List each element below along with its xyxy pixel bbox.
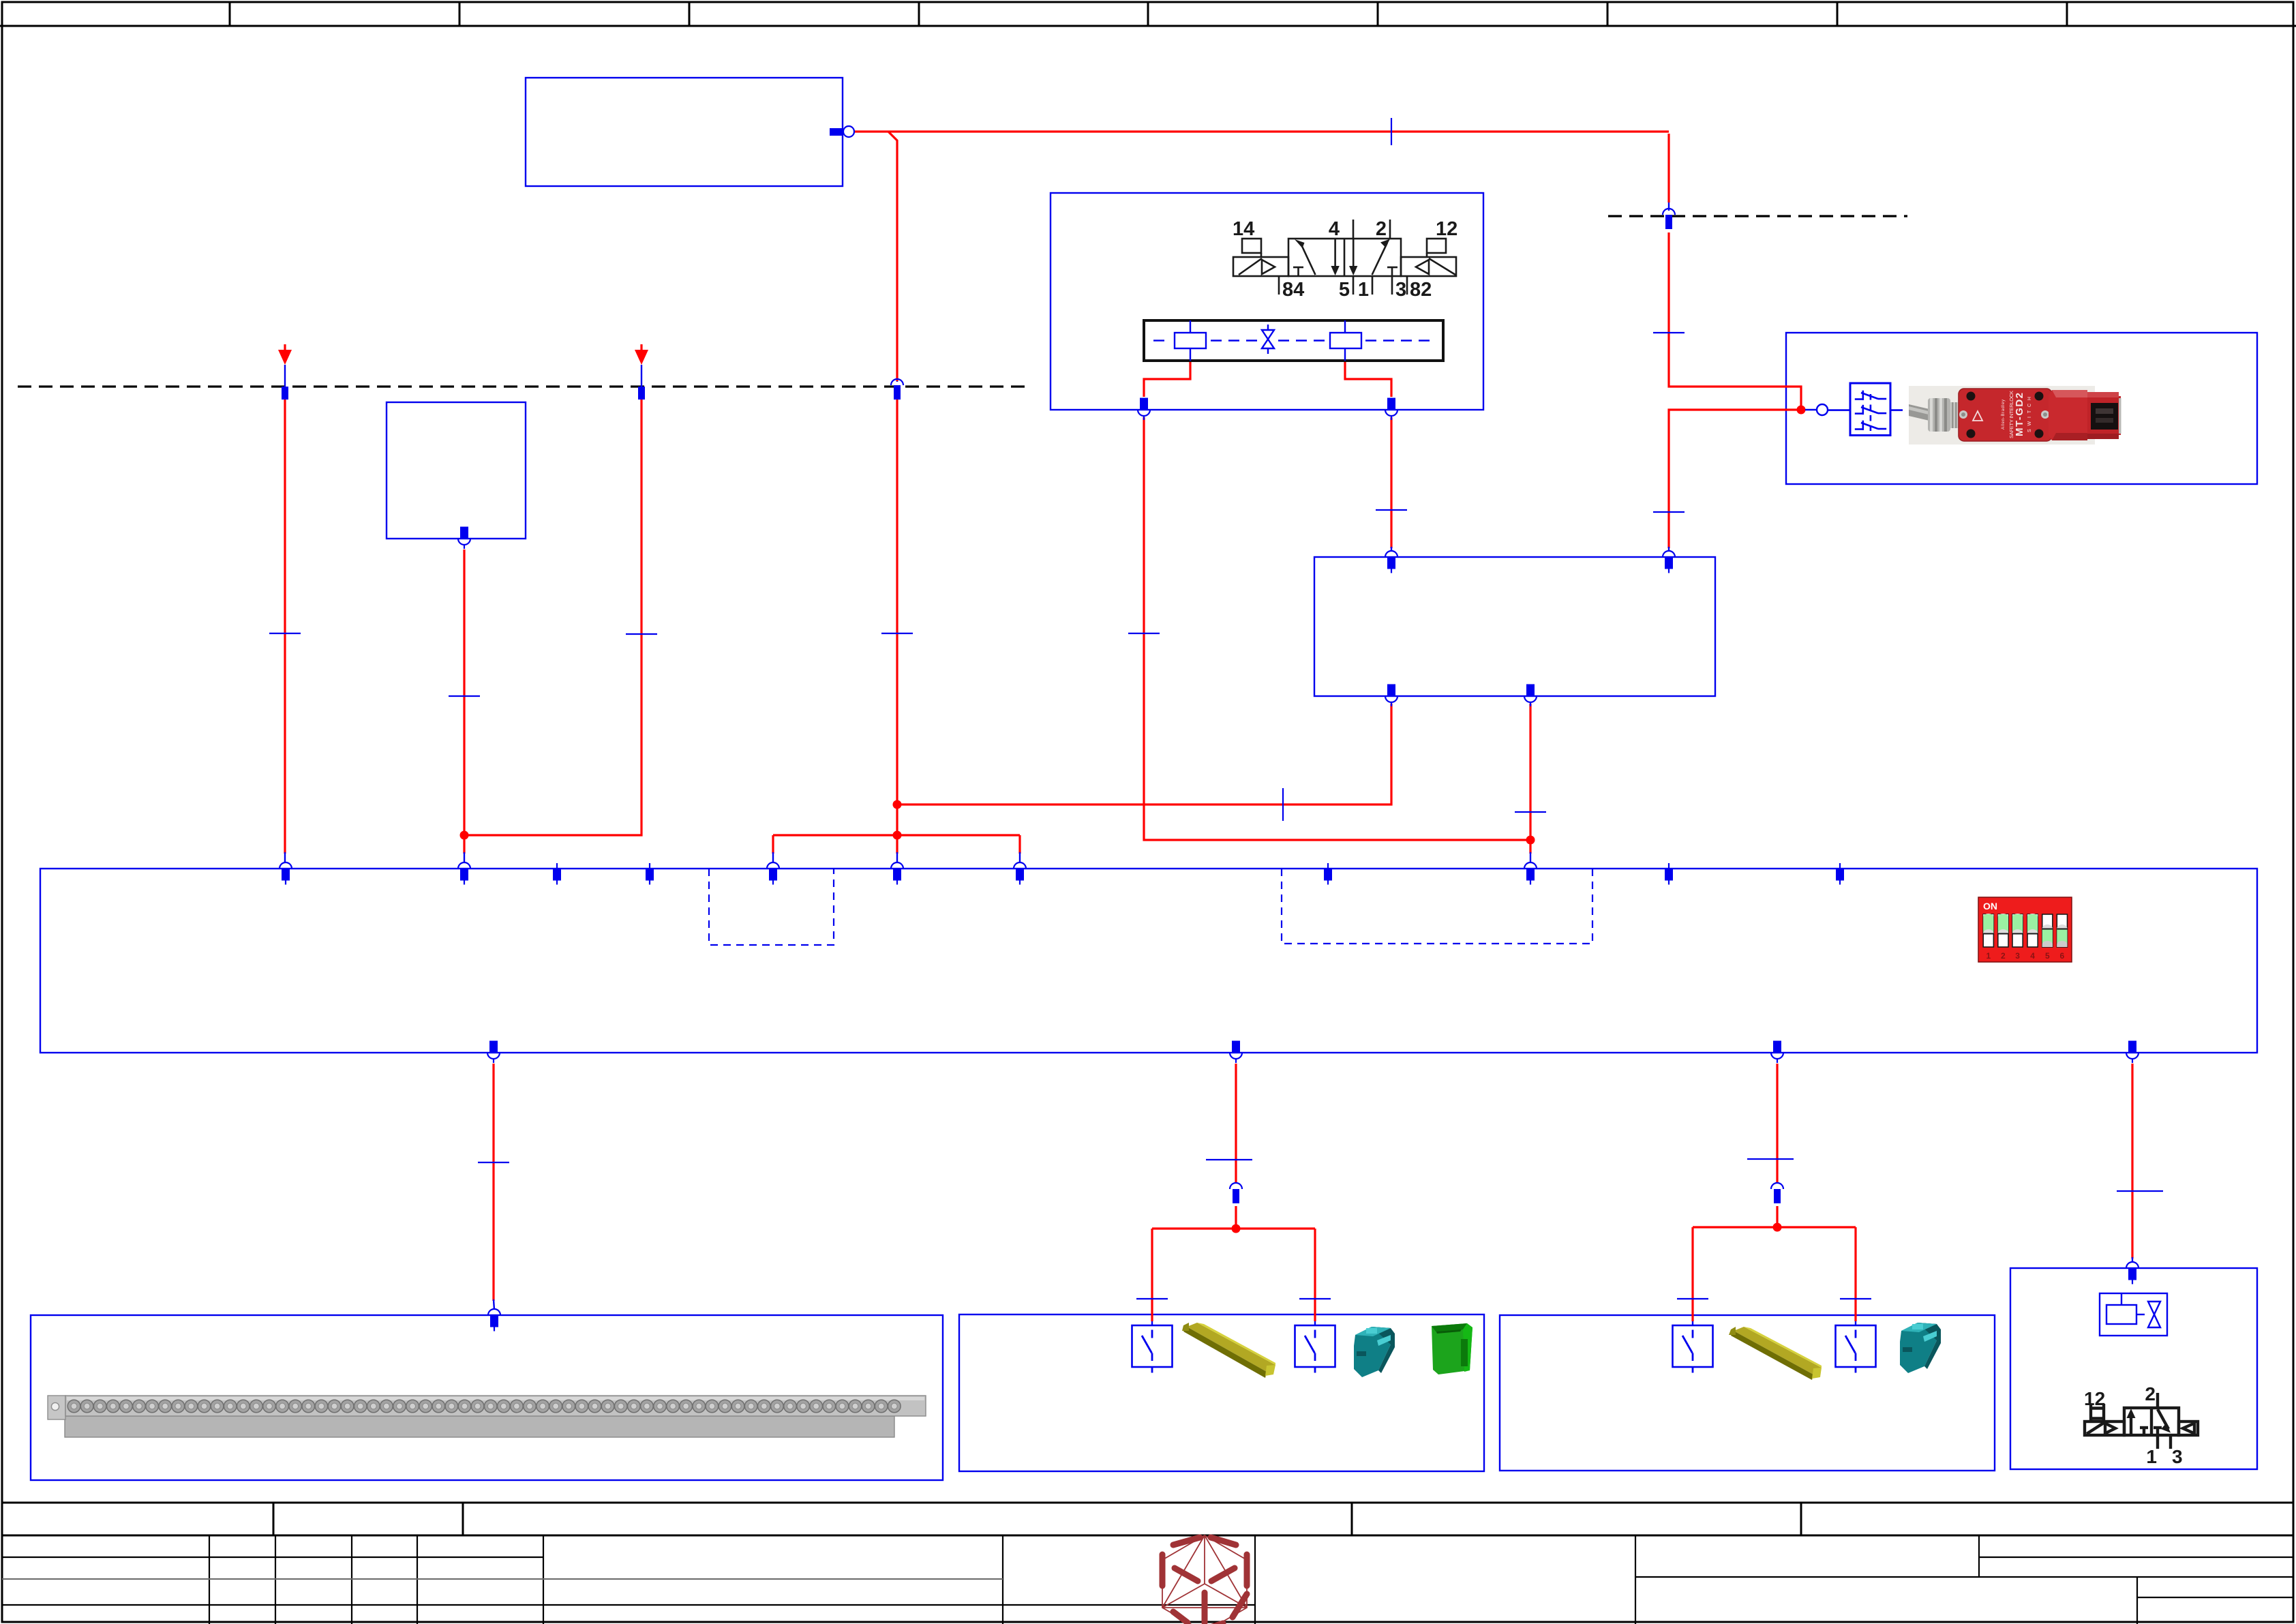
svg-text:1: 1 xyxy=(2146,1446,2157,1467)
DIP switch image xyxy=(1978,897,2072,962)
dashed sub-box B inside manifold xyxy=(1282,869,1592,944)
off-page source arrow right xyxy=(635,350,648,365)
company logo hexagon xyxy=(1162,1535,1247,1624)
pin: manifold top x1316 xyxy=(891,862,903,885)
safety interlock switch photo xyxy=(1909,386,2121,445)
left cell up arrow xyxy=(2130,1413,2132,1434)
plug connector at safety switch junction xyxy=(1805,404,1828,415)
port 1 line xyxy=(1372,276,1374,295)
pin: x1316 at dashed line xyxy=(891,379,903,400)
svg-text:Allen-Bradley: Allen-Bradley xyxy=(2002,400,2006,430)
svg-text:12: 12 xyxy=(2084,1388,2105,1409)
wire break tick x1678 xyxy=(1128,633,1160,634)
svg-text:14: 14 xyxy=(1233,218,1254,240)
solenoid coil 14 xyxy=(1242,239,1261,253)
NC contact 1 xyxy=(1855,391,1886,400)
title block grid xyxy=(2,1503,2294,1535)
left pilot xyxy=(1233,257,1288,276)
port 2 line xyxy=(2156,1393,2159,1408)
wire break tick x1929 xyxy=(1299,1298,1331,1299)
port 1 line xyxy=(2156,1435,2159,1449)
safety switch box (right) xyxy=(1786,333,2257,484)
coil block right xyxy=(1330,333,1361,348)
center down arrows xyxy=(1334,239,1336,270)
pin: distributor top x2041 xyxy=(1385,551,1398,573)
port 3 line xyxy=(2169,1435,2172,1449)
valve port labels xyxy=(1233,218,1457,301)
limit switch contact S4 (group 2 right) xyxy=(1836,1325,1876,1373)
svg-text:84: 84 xyxy=(1282,279,1304,301)
sensor group box 2 (bottom middle right) xyxy=(1500,1315,1995,1471)
wire break tick x1813 xyxy=(1206,1159,1252,1160)
svg-text:3: 3 xyxy=(1395,279,1406,301)
pin: distributor top x2448 xyxy=(1663,551,1675,573)
wire: x1678 valve box to horizontal y1232 xyxy=(1144,417,1530,840)
pilot solenoid component (bottom right box) xyxy=(2100,1293,2167,1336)
pin: manifold top spare x817 xyxy=(553,863,561,885)
port 84 line xyxy=(1278,276,1280,295)
pin: left box bottom x681 xyxy=(458,527,470,550)
wire break tick x1316 xyxy=(881,633,913,634)
pin: manifold top x1134 xyxy=(767,862,779,885)
svg-text:5: 5 xyxy=(2045,951,2050,961)
3D part: green block (group 1) xyxy=(1432,1323,1472,1374)
right cell diagonal 2 to 3 xyxy=(2158,1409,2169,1429)
plug connector at controller A1 right edge xyxy=(830,126,854,137)
pin: manifold top spare x2699 xyxy=(1836,863,1844,885)
pin: manifold top spare x2448 xyxy=(1665,863,1673,885)
wire: arrow feed x418 down to manifold xyxy=(284,344,286,350)
wire: x2245 distributor bottom to manifold xyxy=(1529,704,1531,854)
connector pins (blue plug symbols) xyxy=(280,209,2139,1332)
coil stubs xyxy=(1190,320,1191,333)
pin: pilot valve box top x3128 xyxy=(2126,1262,2139,1284)
top header strip column dividers xyxy=(230,1,2067,26)
right pilot xyxy=(1401,257,1456,276)
svg-text:6: 6 xyxy=(2060,951,2065,961)
wire break tick x2722 xyxy=(1840,1298,1871,1299)
pin: floating connector pair x1813 xyxy=(1230,1183,1242,1203)
pin: valve box bottom x1678 xyxy=(1138,398,1150,421)
junction node sensor group 2 xyxy=(1773,1223,1782,1232)
off-page source arrow left xyxy=(278,350,648,365)
pin: manifold top x681 xyxy=(458,862,470,885)
junction node x681/y1225 xyxy=(460,831,469,840)
wire: manifold bottom to sensor group 1 xyxy=(1235,1064,1237,1182)
wire: controller A1 to right distribution (top horizontal) xyxy=(854,130,1669,132)
3D part: yellow wedge plate (group 1) xyxy=(1182,1323,1275,1378)
NC contact 3 xyxy=(1855,421,1886,430)
wire break tick x2607 xyxy=(1747,1158,1794,1160)
wire: valve coil left leg xyxy=(1144,361,1190,397)
pin: x941 at dashed line xyxy=(638,387,645,400)
wire: left box down to manifold xyxy=(463,550,465,854)
3D part: teal clamp finger (group 2) xyxy=(1900,1323,1941,1373)
wire: branch from top line down at x1316 xyxy=(888,132,897,381)
junction node x1316/y1225 xyxy=(893,831,902,840)
distributor box (middle) xyxy=(1314,557,1715,696)
limit switch contact S2 (group 1 right) xyxy=(1295,1325,1335,1373)
pin: distributor bottom x2245 xyxy=(1524,685,1537,707)
wire break tick x941 xyxy=(626,633,657,635)
svg-text:82: 82 xyxy=(1410,279,1432,301)
wire: x1316 from dashed connector down to manifold xyxy=(896,400,898,854)
center shut-off valve bowtie xyxy=(1262,330,1274,340)
svg-text:3: 3 xyxy=(2015,951,2020,961)
svg-text:2: 2 xyxy=(2145,1383,2156,1404)
port 5 line xyxy=(1353,276,1355,295)
small device box (left) xyxy=(387,402,526,539)
pin: distributor bottom x2041 xyxy=(1385,685,1398,707)
svg-text:12: 12 xyxy=(1436,218,1457,240)
port 2 line xyxy=(1389,220,1391,239)
limit switch contact S1 (group 1 left) xyxy=(1132,1325,1173,1373)
junction node x1316/y1180 xyxy=(893,800,902,809)
svg-text:5: 5 xyxy=(1339,279,1350,301)
wire break tick x1690 xyxy=(1136,1298,1168,1299)
solenoid coil 12 xyxy=(1427,239,1446,253)
pin: valve box bottom x2041 xyxy=(1385,398,1398,421)
pin: x2448 at dashed line xyxy=(1663,209,1675,229)
wire: x2041 distributor bottom to horizontal y1180 xyxy=(897,704,1391,805)
red wires xyxy=(285,132,2132,1321)
wire break tick x2041 xyxy=(1376,509,1407,511)
pilot valve box (bottom right) xyxy=(2010,1268,2257,1469)
port 3 line (blocked T) xyxy=(1387,267,1398,269)
wire break tick x2448 upper xyxy=(1653,332,1685,333)
pin: manifold top x2245 xyxy=(1524,862,1537,885)
wire: manifold bottom to DIN rail box xyxy=(492,1064,494,1301)
wire break tick x724 xyxy=(478,1162,509,1163)
svg-text:2: 2 xyxy=(1376,218,1387,240)
contact block external leads xyxy=(1828,409,1850,411)
svg-text:1: 1 xyxy=(1358,279,1369,301)
safety switch contact block symbol xyxy=(1828,383,1890,436)
valve terminal box (5/2 valve unit) xyxy=(1051,193,1483,410)
coil bracket 12 xyxy=(2091,1407,2104,1409)
NC contact 2 xyxy=(1855,405,1886,415)
sensor group box 1 (bottom middle) xyxy=(959,1314,1484,1471)
pin: DIN rail box top x725 xyxy=(488,1309,500,1332)
wire: sensor group 2 branch arms xyxy=(1693,1226,1856,1228)
svg-text:2: 2 xyxy=(2001,951,2006,961)
wire: x2448 below dashed connector down to safety jog xyxy=(1669,232,1801,406)
3D part: yellow wedge plate (group 2) xyxy=(1729,1327,1822,1380)
wire: arrow feed x941 down to branch corner xyxy=(468,400,641,835)
wire: x2041 valve box to distributor box top xyxy=(1390,417,1392,548)
pin: manifold top spare x1948 xyxy=(1324,863,1332,885)
5/2-way valve symbol xyxy=(1233,220,1456,295)
pin: manifold bottom x1813 xyxy=(1230,1041,1242,1064)
wire break tick x418 xyxy=(269,633,301,634)
potential separation dashed line right xyxy=(1608,215,1907,217)
wire: vertical drop at x2448 to dashed line connector xyxy=(1667,134,1670,202)
junction node at safety switch tap xyxy=(1797,406,1806,415)
3/2-way valve symbol xyxy=(2085,1393,2198,1449)
DIN mounting rail image xyxy=(48,1396,926,1437)
lead from contact block to switch photo xyxy=(1890,409,1903,411)
pin: manifold top x1496 xyxy=(1014,862,1026,885)
pin: x418 at dashed line xyxy=(282,387,288,400)
wire break tick x3128 xyxy=(2117,1190,2163,1192)
right cell blocked T xyxy=(2154,1426,2162,1429)
svg-text:1: 1 xyxy=(1986,951,1991,961)
left pilot of 3/2 valve xyxy=(2085,1422,2124,1435)
wire break tick on top feed line xyxy=(1391,118,1392,145)
junction node sensor group 1 xyxy=(1232,1224,1241,1233)
controller box A1 (top left) xyxy=(526,78,843,186)
pin: floating connector pair x2607 xyxy=(1771,1183,1783,1203)
coil block left xyxy=(1175,333,1206,348)
wire break tick on y1180 line xyxy=(1282,788,1284,821)
wire break tick x681 xyxy=(449,695,480,697)
left cell blocked port T xyxy=(1293,267,1303,269)
svg-text:SAFETY INTERLOCK: SAFETY INTERLOCK xyxy=(2008,391,2014,438)
wire: sensor group 1 branch arms xyxy=(1152,1227,1315,1229)
wire: manifold bottom to pilot valve box xyxy=(2131,1064,2133,1259)
pin: manifold bottom x3128 xyxy=(2126,1041,2139,1064)
left cell flow arrow xyxy=(1301,243,1316,275)
svg-text:ON: ON xyxy=(1983,901,1997,912)
port 4 line xyxy=(1353,220,1355,239)
right cell flow arrow 1 to 2 xyxy=(1372,243,1387,275)
wire break tick x2245 xyxy=(1515,811,1546,813)
wire: branch y1225 to manifold connectors x1134/x1496 xyxy=(773,834,1020,836)
svg-text:4: 4 xyxy=(1329,218,1340,240)
svg-text:3: 3 xyxy=(2172,1446,2183,1467)
bus terminal manifold box xyxy=(40,869,2257,1053)
pin: manifold top spare x953 xyxy=(646,863,654,885)
dashed sub-box A inside manifold xyxy=(709,869,1592,945)
DIN rail box (bottom left) xyxy=(31,1315,943,1480)
potential separation dashed line left xyxy=(18,385,1027,387)
shut-off bypass component (black frame) xyxy=(1144,320,1443,361)
port 82 line xyxy=(1406,276,1408,295)
wire: valve coil right leg xyxy=(1345,361,1391,397)
junction node x2245/y1232 xyxy=(1526,836,1535,845)
svg-text:4: 4 xyxy=(2030,951,2035,961)
limit switch contact S3 (group 2 left) xyxy=(1673,1325,1713,1373)
right return of 3/2 valve xyxy=(2179,1422,2198,1435)
left cell blocked T xyxy=(2140,1426,2148,1429)
3D part: teal clamp finger (group 1) xyxy=(1354,1327,1395,1377)
wire: manifold bottom to sensor group 2 xyxy=(1776,1064,1778,1182)
pin: manifold top x419 xyxy=(280,862,292,885)
pin: manifold bottom x724 xyxy=(487,1041,500,1064)
wire break tick x2483 xyxy=(1677,1298,1708,1299)
wire break tick x2448 lower xyxy=(1653,511,1685,513)
pin: manifold bottom x2607 xyxy=(1771,1041,1783,1064)
wire end blue stubs xyxy=(285,202,2132,1325)
wire: safety junction back to x2448 and down to distributor box xyxy=(1669,410,1801,548)
